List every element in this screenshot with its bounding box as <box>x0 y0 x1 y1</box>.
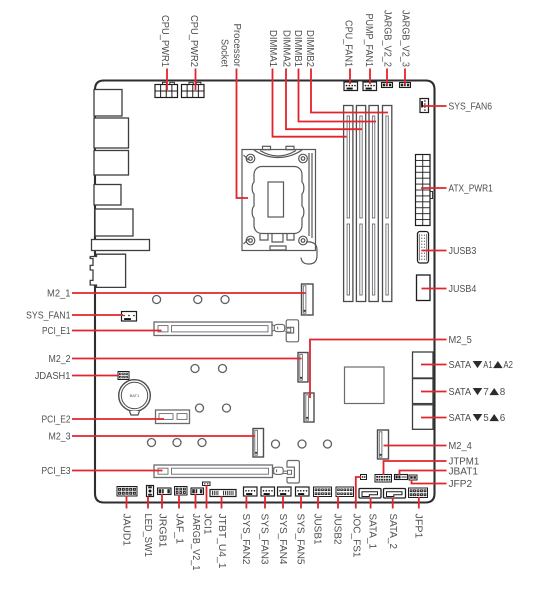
svg-text:JAF_1: JAF_1 <box>174 514 185 545</box>
connector CPU_PWR1 (8-pin power) <box>155 82 178 97</box>
connector JOC_FS1 <box>361 475 367 480</box>
connector JUSB1 <box>314 487 332 497</box>
leader JRGB1 <box>161 494 163 509</box>
leader ATX_PWR1 <box>421 187 447 189</box>
svg-text:JDASH1: JDASH1 <box>35 371 71 382</box>
DIMM slot DIMMA2 <box>356 106 365 302</box>
label SATA 5/6 label <box>449 413 506 424</box>
leader JTPM1 <box>384 461 447 475</box>
svg-text:8: 8 <box>500 387 506 398</box>
connector block SATA 7/8 <box>413 379 434 404</box>
svg-text:M2_4: M2_4 <box>449 441 473 452</box>
leader JOC_FS1 <box>356 477 361 509</box>
svg-text:JFP1: JFP1 <box>413 514 424 539</box>
leader CPU_PWR1 <box>166 69 168 91</box>
connector SATA_2 (SATA port) <box>384 489 406 499</box>
rear I/O block 4 <box>94 185 121 206</box>
rear I/O block 5 <box>95 209 133 236</box>
svg-text:SATA: SATA <box>449 413 472 424</box>
svg-text:PUMP_FAN1: PUMP_FAN1 <box>363 14 374 68</box>
svg-text:SATA_2: SATA_2 <box>387 514 398 550</box>
leader M2_2 <box>72 358 302 360</box>
leader SYS_FAN1 <box>72 314 123 316</box>
leader PUMP_FAN1 <box>369 69 371 85</box>
connector JUSB2 <box>336 487 354 497</box>
leader JUSB3 <box>422 250 447 252</box>
leader M2_4 <box>384 445 447 447</box>
svg-text:DIMMB1: DIMMB1 <box>292 30 303 67</box>
svg-text:CPU_FAN1: CPU_FAN1 <box>343 20 354 67</box>
leader SATA_2 <box>392 498 394 509</box>
leader SYS_FAN3 <box>264 496 266 509</box>
leader DIMMB2 <box>311 69 388 113</box>
svg-text:M2_1: M2_1 <box>47 289 71 300</box>
connector CPU_FAN1 (fan header) <box>344 82 358 91</box>
svg-text:6: 6 <box>500 413 506 424</box>
rear I/O block 3 <box>94 151 129 176</box>
leader SYS_FAN6 <box>423 105 447 107</box>
svg-text:DIMMA2: DIMMA2 <box>281 30 292 67</box>
leader SYS_FAN2 <box>245 496 247 509</box>
svg-text:M2_2: M2_2 <box>49 354 71 365</box>
svg-text:JUSB2: JUSB2 <box>332 514 343 545</box>
svg-text:PCI_E2: PCI_E2 <box>42 415 71 426</box>
leader JUSB4 <box>422 288 447 290</box>
M.2 slot M2_3 <box>253 429 264 458</box>
connector SYS_FAN4 (fan header) <box>278 487 292 496</box>
DIMM slot DIMMB1 <box>369 106 378 302</box>
leader JDASH1 <box>72 375 119 377</box>
leader SYS_FAN4 <box>282 496 284 509</box>
leader CPU_PWR2 <box>195 69 197 91</box>
svg-text:SATA_1: SATA_1 <box>367 514 378 550</box>
connector SATA_1 (SATA port) <box>359 489 381 499</box>
svg-text:Socket: Socket <box>219 39 230 67</box>
rear I/O block 2 <box>94 118 129 148</box>
connector JFP1 <box>409 488 428 498</box>
svg-text:SYS_FAN1: SYS_FAN1 <box>26 311 71 322</box>
leader JBAT1 <box>400 471 447 476</box>
connector JRGB1 (ARGB header) <box>158 488 172 495</box>
svg-text:SYS_FAN3: SYS_FAN3 <box>259 514 270 565</box>
connector SYS_FAN6 (fan header) <box>420 99 429 113</box>
connector SYS_FAN5 (fan header) <box>296 487 310 496</box>
connector JAUD1 <box>117 487 137 497</box>
svg-text:BAT1: BAT1 <box>130 393 140 398</box>
leader JFP2 <box>412 480 447 484</box>
connector PUMP_FAN1 (fan header) <box>363 82 377 91</box>
motherboard outline <box>95 81 435 503</box>
connector block SATA 5/6 <box>413 405 434 430</box>
M.2 slot M2_2 <box>298 353 308 383</box>
svg-text:JAUD1: JAUD1 <box>121 514 132 547</box>
leader JARGB_V2_3 <box>404 69 406 85</box>
leader JCI1 <box>206 485 208 509</box>
M.2 slot M2_5 <box>304 393 314 422</box>
svg-text:CPU_PWR2: CPU_PWR2 <box>188 15 199 67</box>
connector JARGB_V2_3 (ARGB header) <box>400 83 411 88</box>
svg-text:M2_5: M2_5 <box>449 335 473 346</box>
chipset block <box>345 367 385 404</box>
connector CPU_PWR2 (8-pin power) <box>182 82 205 97</box>
leader SATA_1 <box>370 498 372 509</box>
PCIe slot PCI_E2 <box>156 410 190 424</box>
connector SYS_FAN2 (fan header) <box>244 487 258 496</box>
svg-text:PCI_E3: PCI_E3 <box>42 466 71 477</box>
connector JUSB3 (USB-C header) <box>418 232 429 264</box>
svg-text:PCI_E1: PCI_E1 <box>42 326 71 337</box>
connector JAF_1 <box>175 487 188 496</box>
leader M2_5 <box>310 340 447 399</box>
leader JARGB_V2_1 <box>195 494 197 509</box>
leader PCI_E1 <box>72 330 162 332</box>
svg-text:CPU_PWR1: CPU_PWR1 <box>159 15 170 67</box>
svg-text:JCI1: JCI1 <box>202 514 213 535</box>
leader DIMMA1 <box>273 69 347 137</box>
svg-text:SYS_FAN5: SYS_FAN5 <box>295 514 306 565</box>
leader JTBT_U4_1 <box>221 496 223 509</box>
M.2 slot M2_4 <box>378 430 389 459</box>
leader DIMMA2 <box>286 69 362 130</box>
svg-text:A2: A2 <box>504 360 514 371</box>
connector JTPM1 <box>375 475 392 483</box>
svg-text:JUSB3: JUSB3 <box>449 246 477 257</box>
battery BAT1 <box>119 380 151 415</box>
svg-text:DIMMB2: DIMMB2 <box>304 30 315 67</box>
leader JAF_1 <box>178 495 180 509</box>
svg-text:M2_3: M2_3 <box>49 432 71 443</box>
leader SYS_FAN5 <box>300 496 302 509</box>
leader M2_3 <box>72 435 255 437</box>
DIMM slot DIMMB2 <box>383 106 392 302</box>
connector SYS_FAN3 (fan header) <box>261 487 275 496</box>
svg-text:SYS_FAN2: SYS_FAN2 <box>240 514 251 565</box>
connector JFP2 <box>409 475 417 480</box>
connector SYS_FAN1 (fan header) <box>122 312 137 322</box>
connector block SATA A1/A2 <box>413 352 434 378</box>
connector JCI1 <box>203 482 211 486</box>
rear I/O block 1 <box>94 90 122 117</box>
svg-text:SYS_FAN6: SYS_FAN6 <box>449 102 493 113</box>
PCIe slot PCI_E1 <box>154 320 299 342</box>
leader SATA 7/8 <box>421 391 447 393</box>
svg-text:JBAT1: JBAT1 <box>449 467 479 478</box>
connector JARGB_V2_1 (ARGB header) <box>191 488 204 495</box>
svg-text:7: 7 <box>483 387 489 398</box>
leader JAUD1 <box>126 496 128 509</box>
leader CPU_FAN1 <box>349 69 351 85</box>
svg-text:JRGB1: JRGB1 <box>157 514 168 548</box>
leader PCI_E3 <box>72 470 163 472</box>
svg-text:LED_SW1: LED_SW1 <box>142 514 153 558</box>
leader JFP1 <box>418 497 420 509</box>
svg-text:JUSB4: JUSB4 <box>449 284 477 295</box>
svg-text:ATX_PWR1: ATX_PWR1 <box>449 184 494 195</box>
svg-text:A1: A1 <box>483 360 493 371</box>
M.2 slot M2_1 <box>302 284 314 315</box>
svg-text:JUSB1: JUSB1 <box>312 514 323 545</box>
PCIe slot PCI_E3 <box>154 461 299 484</box>
connector JDASH1 <box>118 372 129 380</box>
leader Processor Socket <box>237 69 249 199</box>
connector ATX_PWR1 (24-pin power) <box>416 155 433 226</box>
leader PCI_E2 <box>72 418 164 420</box>
svg-text:JARGB_V2_2: JARGB_V2_2 <box>382 10 393 67</box>
leader LED_SW1 <box>147 497 149 509</box>
connector LED_SW1 <box>147 486 154 497</box>
svg-text:5: 5 <box>483 413 489 424</box>
svg-text:SATA: SATA <box>449 360 472 371</box>
leader JUSB1 <box>317 496 319 509</box>
svg-text:JARGB_V2_3: JARGB_V2_3 <box>400 10 411 67</box>
svg-text:JTBT_U4_1: JTBT_U4_1 <box>216 514 227 569</box>
leader DIMMB1 <box>299 69 377 122</box>
CPU socket (Processor Socket) <box>242 146 317 264</box>
rear I/O audio block <box>90 254 125 287</box>
svg-text:DIMMA1: DIMMA1 <box>267 30 278 67</box>
DIMM slot DIMMA1 <box>344 106 353 302</box>
svg-text:Processor: Processor <box>231 24 242 68</box>
connector JBAT1 <box>395 475 408 480</box>
leader JUSB2 <box>337 496 339 509</box>
connector JARGB_V2_2 (ARGB header) <box>382 83 393 88</box>
leader SATA 5/6 <box>421 417 447 419</box>
svg-text:SYS_FAN4: SYS_FAN4 <box>277 514 288 565</box>
svg-text:JFP2: JFP2 <box>449 479 473 490</box>
connector JUSB4 <box>417 275 431 301</box>
label SATA 7/8 label <box>449 387 506 398</box>
svg-text:JARGB_V2_1: JARGB_V2_1 <box>190 514 201 571</box>
connector JTBT_U4_1 <box>210 490 236 497</box>
svg-text:SATA: SATA <box>449 387 472 398</box>
leader SATA A1/A2 <box>421 364 447 366</box>
label SATA A1/A2 label <box>449 360 514 371</box>
leader JARGB_V2_2 <box>386 69 388 85</box>
mounting holes <box>148 296 332 449</box>
svg-text:JOC_FS1: JOC_FS1 <box>350 514 361 558</box>
rear I/O block 6 <box>92 240 150 251</box>
leader M2_1 <box>72 292 306 294</box>
